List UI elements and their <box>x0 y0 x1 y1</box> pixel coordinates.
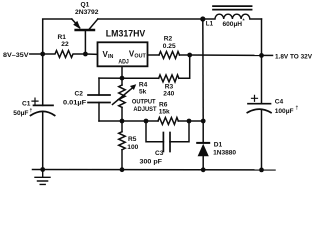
node R4/R5/C2 row junction <box>120 119 125 124</box>
transistor Q1 collector <box>90 19 98 29</box>
svg-text:C3: C3 <box>155 150 164 157</box>
svg-text:OUTPUT: OUTPUT <box>132 99 156 106</box>
svg-text:ADJUST: ADJUST <box>133 106 156 113</box>
potentiometer R4 wiper arrowhead <box>130 84 136 90</box>
node R6/C3 right junction <box>187 119 192 124</box>
svg-text:L1: L1 <box>206 21 214 28</box>
transistor Q1 emitter arrowhead <box>73 21 81 29</box>
capacitor C3 left plate <box>162 133 164 152</box>
wire ADJ pin <box>121 66 123 78</box>
capacitor C2 upper lead <box>98 78 100 95</box>
diode D1 triangle <box>198 144 209 156</box>
svg-text:†: † <box>30 108 33 114</box>
svg-text:600µH: 600µH <box>223 21 243 28</box>
capacitor C1 plus <box>32 98 38 104</box>
node rail / R5 <box>120 167 125 172</box>
wire R6 to node <box>178 120 189 122</box>
capacitor C2 lower lead <box>98 103 100 122</box>
wire output column upper <box>261 19 263 55</box>
svg-text:2N3792: 2N3792 <box>75 9 99 16</box>
capacitor C4 plus <box>252 95 258 101</box>
svg-text:R2: R2 <box>164 36 173 43</box>
inductor L1 core line 1 <box>213 5 252 7</box>
svg-text:IN: IN <box>108 54 113 60</box>
svg-text:OUT: OUT <box>134 54 146 60</box>
wire bottom rail <box>33 169 276 171</box>
wire input column to top rail <box>43 19 72 54</box>
capacitor C1 curved plate <box>31 111 55 115</box>
diode D1 anode lead <box>202 156 204 170</box>
wire output column lower <box>261 110 263 170</box>
svg-text:R1: R1 <box>58 34 67 41</box>
svg-text:LM317HV: LM317HV <box>106 28 146 38</box>
wire R2 to node <box>180 54 190 56</box>
capacitor C1 lower lead <box>42 112 44 169</box>
svg-text:15k: 15k <box>159 109 170 116</box>
wire R3 to column <box>179 55 190 78</box>
resistor R5 lower lead <box>121 150 123 170</box>
svg-text:Q1: Q1 <box>81 2 90 9</box>
node switch column junction <box>201 119 206 124</box>
node C3 left junction <box>144 119 149 124</box>
node output junction <box>259 53 264 58</box>
svg-text:ADJ: ADJ <box>118 59 129 66</box>
wire switch column (L1 node down to R6 row, crosses output row) <box>202 19 204 121</box>
node rail / C1 ground <box>40 167 45 172</box>
svg-text:†: † <box>296 106 299 112</box>
svg-text:5k: 5k <box>139 88 147 95</box>
wire to VIN pin <box>85 53 97 55</box>
svg-text:240: 240 <box>163 91 174 98</box>
resistor R1 <box>43 51 86 58</box>
capacitor C2 top plate <box>88 94 110 96</box>
capacitor C3 right lead <box>170 121 189 142</box>
resistor R2 <box>159 52 180 59</box>
svg-text:D1: D1 <box>214 141 223 148</box>
svg-text:100: 100 <box>127 144 138 151</box>
capacitor C4 top plate <box>248 103 271 105</box>
potentiometer R4 wiper arrow <box>113 88 133 105</box>
resistor R3 <box>159 75 179 82</box>
capacitor C4 curved plate <box>247 109 271 113</box>
resistor R6 <box>158 118 178 125</box>
wire top rail collector to L1 node <box>98 18 203 20</box>
svg-text:R3: R3 <box>165 84 174 91</box>
capacitor C3 right plate <box>169 133 171 152</box>
inductor L1 core line 2 <box>213 9 252 11</box>
svg-text:C1: C1 <box>22 100 31 107</box>
wire R6 node to switch column <box>189 120 203 122</box>
op-amp U1 LM317HV box <box>98 42 148 66</box>
capacitor C1 upper lead <box>42 54 44 105</box>
svg-text:50µF: 50µF <box>13 110 28 117</box>
svg-text:1.8V TO 32V: 1.8V TO 32V <box>275 54 313 61</box>
svg-text:1N3880: 1N3880 <box>213 149 236 156</box>
inductor L1 <box>203 14 262 19</box>
wire output column to C4 <box>261 55 263 103</box>
wire input stub <box>30 53 43 55</box>
resistor R5 zigzag <box>119 132 126 150</box>
transistor Q1 emitter <box>72 19 80 28</box>
svg-text:R6: R6 <box>159 102 168 109</box>
wire output stub <box>262 54 273 56</box>
node ADJ junction <box>120 76 125 81</box>
svg-text:R5: R5 <box>128 136 137 143</box>
node rail / C4 output column <box>259 168 264 173</box>
transistor Q1 base bar <box>76 29 94 31</box>
svg-text:8V–35V: 8V–35V <box>3 52 29 59</box>
diode D1 cathode bar <box>197 142 209 144</box>
node top rail / L1 junction <box>200 16 205 21</box>
wire ADJ row <box>99 77 159 79</box>
svg-text:22: 22 <box>61 41 69 48</box>
svg-text:0.01µF: 0.01µF <box>63 100 86 107</box>
svg-text:100µF: 100µF <box>275 108 294 115</box>
ground symbol <box>35 170 50 185</box>
resistor R5 lead <box>121 121 123 132</box>
svg-text:300 pF: 300 pF <box>140 158 163 165</box>
node rail / D1 <box>201 167 206 172</box>
capacitor C1 top plate <box>34 104 54 106</box>
potentiometer R4 zigzag <box>119 85 126 107</box>
capacitor C2 bottom plate <box>88 102 110 104</box>
wire output row (crosses switch column, no junction) <box>190 54 262 56</box>
node input junction <box>40 52 45 57</box>
wire VOUT pin to R2 <box>148 54 160 56</box>
node R2/R3 junction <box>187 53 192 58</box>
capacitor C3 left lead <box>146 121 163 142</box>
svg-text:R4: R4 <box>139 81 148 88</box>
node Q1 base / VIN <box>83 52 88 57</box>
wire feedback row <box>99 120 158 122</box>
transistor Q1 base lead <box>84 30 86 54</box>
svg-text:0.25: 0.25 <box>163 43 176 50</box>
potentiometer R4 lower lead <box>121 107 123 121</box>
potentiometer R4 lead <box>121 78 123 85</box>
svg-text:C2: C2 <box>75 91 84 98</box>
svg-text:C4: C4 <box>275 98 284 105</box>
wire switch column to D1 cathode <box>202 121 204 143</box>
